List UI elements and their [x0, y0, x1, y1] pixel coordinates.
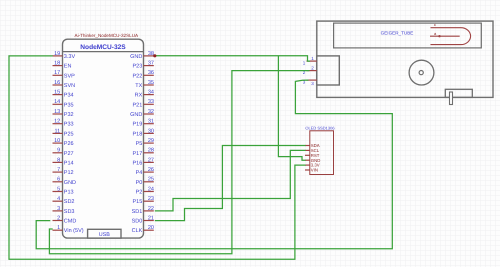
U1 pin 29 P5 (right) [136, 138, 154, 147]
U1 pin 37 P23 (right) [133, 61, 154, 70]
Geiger connector J1 box [317, 56, 340, 85]
U1 pin 17 SVP (left) [53, 70, 76, 79]
svg-text:17: 17 [54, 70, 60, 76]
U1 pin 4 SD2 (left) [53, 196, 75, 205]
svg-text:20: 20 [148, 225, 154, 231]
svg-text:P25: P25 [64, 131, 74, 137]
svg-text:21: 21 [148, 215, 154, 221]
U1 pin 8 P14 (left) [53, 157, 74, 166]
svg-text:SVP: SVP [64, 73, 75, 79]
svg-text:P2: P2 [136, 190, 143, 196]
svg-text:P34: P34 [64, 93, 74, 99]
buzzer/speaker circle [409, 60, 434, 85]
Geiger counter module outer box [317, 21, 493, 97]
svg-text:P21: P21 [133, 102, 143, 108]
U1 pin 10 P26 (left) [53, 138, 74, 147]
svg-text:SD0: SD0 [132, 219, 143, 225]
U1 pin 27 P16 (right) [133, 157, 154, 166]
U1 pin 14 P35 (left) [53, 99, 74, 108]
svg-text:38: 38 [148, 51, 154, 57]
OLED pin 3.3V [305, 163, 320, 168]
svg-text:34: 34 [148, 90, 154, 96]
OLED pin SCL [305, 148, 320, 153]
svg-text:P27: P27 [64, 151, 74, 157]
U1 pin 33 P21 (right) [133, 99, 154, 108]
svg-text:EN: EN [64, 64, 72, 70]
svg-text:TX: TX [135, 83, 142, 89]
svg-text:31: 31 [148, 119, 154, 125]
svg-text:P19: P19 [133, 122, 143, 128]
U1 pin 12 P33 (left) [53, 119, 74, 128]
svg-text:26: 26 [148, 167, 154, 173]
svg-text:GEIGER_TUBE: GEIGER_TUBE [381, 31, 414, 36]
U1 pin 16 SVN (left) [53, 80, 76, 89]
svg-text:12: 12 [54, 119, 60, 125]
svg-text:P0: P0 [136, 180, 143, 186]
svg-text:16: 16 [54, 80, 60, 86]
svg-text:P14: P14 [64, 160, 74, 166]
svg-text:USB: USB [99, 232, 110, 238]
svg-text:VIN: VIN [311, 168, 318, 173]
U1 pin 36 P22 (right) [133, 70, 154, 79]
svg-text:P33: P33 [64, 122, 74, 128]
U1 pin 25 P0 (right) [136, 177, 154, 186]
svg-text:8: 8 [57, 157, 60, 163]
U1 pin 24 P2 (right) [136, 186, 154, 195]
svg-text:19: 19 [54, 51, 60, 57]
svg-text:1: 1 [57, 225, 60, 231]
svg-text:P22: P22 [133, 73, 143, 79]
Geiger tube inner box [334, 23, 482, 48]
svg-text:P32: P32 [64, 112, 74, 118]
wire SDA: U1 pin21 SD0 to OLED SDA [155, 146, 306, 221]
U1 pin 6 GND (left) [53, 177, 77, 186]
svg-text:22: 22 [148, 206, 154, 212]
U1 pin 28 P17 (right) [133, 148, 154, 157]
U1 pin 13 P32 (left) [53, 109, 74, 118]
svg-text:5: 5 [57, 186, 60, 192]
U1 pin 31 P19 (right) [133, 119, 154, 128]
svg-text:SVN: SVN [64, 83, 75, 89]
svg-text:25: 25 [148, 177, 154, 183]
svg-text:GND: GND [130, 54, 142, 60]
U1 pin 30 P18 (right) [133, 128, 154, 137]
svg-text:18: 18 [54, 61, 60, 67]
svg-text:13: 13 [54, 109, 60, 115]
svg-text:P5: P5 [136, 141, 143, 147]
U1 pin 11 P25 (left) [53, 128, 74, 137]
U1 pin 26 P4 (right) [136, 167, 154, 176]
U1 pin 34 RX (right) [135, 90, 154, 99]
svg-text:37: 37 [148, 61, 154, 67]
U1 pin 7 P12 (left) [53, 167, 74, 176]
svg-text:SD2: SD2 [64, 199, 75, 205]
svg-text:GND: GND [130, 112, 142, 118]
OLED pin VIN [305, 168, 318, 173]
svg-text:30: 30 [148, 128, 154, 134]
pushbutton switch [445, 89, 472, 104]
svg-text:OLED SSD1306: OLED SSD1306 [305, 125, 335, 130]
svg-text:P26: P26 [64, 141, 74, 147]
U1 pin 38 GND (right) [130, 51, 154, 60]
svg-text:28: 28 [148, 148, 154, 154]
svg-text:c: c [434, 22, 436, 27]
svg-text:2: 2 [57, 215, 60, 221]
Geiger connector pin 2 [303, 65, 317, 74]
svg-text:P35: P35 [64, 102, 74, 108]
wire CMD: U1 pin2 to Geiger pin3 [36, 80, 392, 249]
svg-text:P4: P4 [136, 170, 143, 176]
U1 pin 18 EN (left) [53, 61, 72, 70]
svg-text:4: 4 [57, 196, 60, 202]
svg-text:P23: P23 [133, 64, 143, 70]
svg-text:P15: P15 [133, 199, 143, 205]
Geiger connector pin 1 [303, 56, 317, 65]
U1 pin 20 CLK (right) [132, 225, 154, 234]
wire GND branch: down to OLED GND pin [278, 56, 305, 160]
GM tube symbol [430, 22, 471, 44]
svg-text:33: 33 [148, 99, 154, 105]
svg-text:10: 10 [54, 138, 60, 144]
OLED pin SDA [305, 143, 320, 148]
svg-text:SD3: SD3 [64, 209, 75, 215]
svg-text:CMD: CMD [64, 219, 77, 225]
svg-text:NodeMCU-32S: NodeMCU-32S [80, 44, 126, 51]
U1 pin 5 P13 (left) [53, 186, 74, 195]
OLED pin GND [305, 158, 320, 163]
svg-text:9: 9 [57, 148, 60, 154]
U1 pin 2 CMD (left) [53, 215, 77, 224]
U1 pin 1 Vin (5V) (left) [53, 225, 84, 234]
wire 3.3V: U1 pin19 to OLED 3.3V [9, 56, 306, 259]
svg-text:P16: P16 [133, 160, 143, 166]
U1 pin 3 SD3 (left) [53, 206, 75, 215]
U1 pin 15 P34 (left) [53, 90, 74, 99]
svg-text:Ai-Thinker_NodeMCU-32SLUA: Ai-Thinker_NodeMCU-32SLUA [75, 33, 140, 38]
wire SCL: U1 pin22 SD1 to OLED SCL [155, 150, 306, 211]
svg-text:14: 14 [54, 99, 60, 105]
svg-text:36: 36 [148, 70, 154, 76]
svg-text:7: 7 [57, 167, 60, 173]
U1 pin 9 P27 (left) [53, 148, 74, 157]
svg-text:35: 35 [148, 80, 154, 86]
wire GND: U1 pin38 to Geiger pin1 [155, 56, 310, 61]
svg-text:Vin (5V): Vin (5V) [64, 228, 84, 234]
svg-text:3.3V: 3.3V [64, 54, 76, 60]
svg-text:15: 15 [54, 90, 60, 96]
svg-text:6: 6 [57, 177, 60, 183]
svg-text:P13: P13 [64, 190, 74, 196]
USB connector box [88, 229, 121, 238]
IC U1 NodeMCU-32S body [63, 39, 144, 238]
U1 pin 21 SD0 (right) [132, 215, 154, 224]
junction dot at U1 pin38 [153, 54, 156, 57]
svg-text:24: 24 [148, 186, 154, 192]
svg-text:23: 23 [148, 196, 154, 202]
U1 pin 32 GND (right) [130, 109, 154, 118]
svg-text:29: 29 [148, 138, 154, 144]
U1 pin 23 P15 (right) [133, 196, 154, 205]
svg-text:P17: P17 [133, 151, 143, 157]
svg-text:GND: GND [64, 180, 76, 186]
svg-text:CLK: CLK [132, 228, 143, 234]
U1 pin 35 TX (right) [135, 80, 154, 89]
OLED pin RST [305, 153, 320, 158]
svg-text:27: 27 [148, 157, 154, 163]
wire Vin5V: U1 pin1 to Geiger pin2 [49, 71, 309, 254]
svg-text:11: 11 [54, 128, 60, 134]
svg-text:P12: P12 [64, 170, 74, 176]
svg-text:P18: P18 [133, 131, 143, 137]
Geiger connector pin 3 [303, 79, 317, 86]
svg-text:3: 3 [57, 206, 60, 212]
U1 pin 19 3.3V (left) [53, 51, 76, 60]
svg-text:SD1: SD1 [132, 209, 143, 215]
U1 pin 22 SD1 (right) [132, 206, 154, 215]
OLED SSD1306 body [310, 131, 334, 175]
svg-text:32: 32 [148, 109, 154, 115]
svg-text:RX: RX [135, 93, 143, 99]
